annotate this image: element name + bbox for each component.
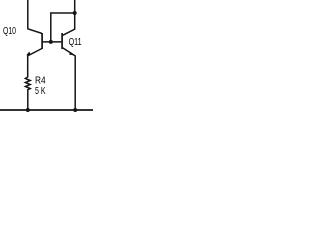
wire base net Q10 to Q11 [42,41,62,43]
transistor Q11 base bar [61,33,63,49]
wire bottom rail V- [0,109,93,111]
transistor Q10 emitter lead [28,49,42,78]
svg-text:5 K: 5 K [35,86,46,97]
junction dot bottom rail left [26,108,30,112]
junction dot bottom rail right [73,108,77,112]
resistor R4 zigzag [25,77,30,110]
svg-text:Q11: Q11 [69,37,82,48]
transistor Q11 emitter lead [62,48,75,110]
arrow Q10 emitter (points down-left) [26,52,31,56]
junction dot base net [49,40,53,44]
transistor Q10 base bar [41,33,43,49]
wire top rail with corner down to base net [51,13,75,42]
junction dot top rail [73,11,77,15]
svg-text:Q10: Q10 [3,26,16,37]
wire Q10 collector vertical from top edge [28,0,42,33]
wire Q11 collector vertical from top edge [63,0,75,35]
arrow Q11 emitter (points down-right) [69,52,73,56]
svg-text:R4: R4 [35,76,46,87]
